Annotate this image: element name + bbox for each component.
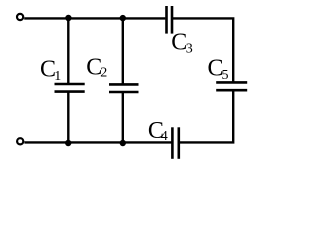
svg-text:2: 2: [100, 66, 107, 81]
wire from C5 bottom plate to C4 (bottom-right corner): [180, 90, 234, 142]
junction node (top of C2 branch): [120, 15, 126, 21]
wire top rail (terminal to C3 left plate): [24, 17, 165, 19]
wire C1 branch lower (C1 bottom plate to bottom rail): [67, 92, 69, 143]
svg-text:5: 5: [222, 68, 229, 83]
svg-text:3: 3: [186, 41, 193, 56]
capacitor C2 plates: [109, 84, 139, 92]
capacitor C1 plates: [55, 84, 85, 92]
label C4: [148, 118, 168, 144]
capacitor C5 plates: [216, 82, 247, 90]
junction node (bottom of C2 branch): [120, 140, 126, 146]
label C3: [171, 29, 192, 56]
label C1: [40, 57, 61, 85]
wire C2 branch lower (C2 bottom plate to bottom rail): [122, 92, 124, 142]
wire from C3 right plate to C5 (top-right corner): [173, 18, 234, 82]
label C5: [208, 56, 229, 84]
terminal T2 (bottom-left input, open circle): [17, 138, 23, 144]
junction node (bottom of C1 branch): [65, 140, 71, 146]
wire C1 branch upper (top rail to C1 top plate): [67, 18, 69, 84]
capacitor C3 plates: [167, 6, 173, 34]
capacitor C4 plates: [172, 127, 178, 159]
wire C2 branch upper (top rail to C2 top plate): [122, 18, 124, 84]
junction node (top of C1 branch): [65, 15, 71, 21]
wire bottom rail (terminal to C4 left plate): [24, 141, 171, 143]
terminal T1 (top-left input, open circle): [17, 14, 23, 20]
svg-text:1: 1: [54, 69, 61, 84]
label C2: [86, 55, 107, 81]
